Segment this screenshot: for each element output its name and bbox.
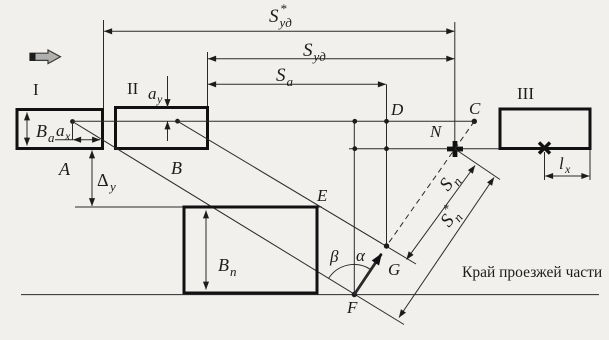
dimension S_n* <box>399 178 494 318</box>
svg-text:Δ: Δ <box>97 170 109 190</box>
direction block arrow icon <box>30 50 61 64</box>
svg-text:α: α <box>356 246 366 265</box>
svg-text:B: B <box>36 121 47 141</box>
extension line at C/N (right end of S_ud*, S_ud) <box>454 22 456 149</box>
svg-text:F: F <box>346 298 358 317</box>
point F <box>352 292 357 297</box>
point G <box>384 243 389 248</box>
svg-text:S: S <box>303 40 313 61</box>
road edge line <box>21 294 599 296</box>
svg-text:уд: уд <box>312 49 327 64</box>
extension line from vehicle II right edge (for S_ud, S_a) <box>207 52 209 108</box>
svg-text:S: S <box>276 65 286 86</box>
svg-text:D: D <box>390 100 404 119</box>
axis line from vehicle I point to C <box>73 120 475 122</box>
label a_y <box>148 84 163 106</box>
svg-text:β: β <box>329 247 339 266</box>
vehicle III <box>500 109 590 149</box>
obstacle rectangle B_n <box>184 207 317 293</box>
svg-text:I: I <box>33 80 39 99</box>
label l_x <box>559 154 571 176</box>
point N cross marker <box>447 141 463 157</box>
svg-text:y: y <box>156 92 163 106</box>
diagonal line L2 from vehicle II point through E and G <box>178 121 417 264</box>
svg-text:a: a <box>148 84 157 103</box>
extension line from vehicle I right edge (for S_ud*) <box>103 20 105 110</box>
label a_x <box>56 121 71 143</box>
point at x386 on y148 <box>384 146 389 151</box>
svg-text:III: III <box>517 84 534 103</box>
svg-text:B: B <box>171 158 182 178</box>
angle arc at F (beta and alpha) <box>328 264 370 278</box>
label B_n <box>218 255 237 279</box>
dimension S_ud <box>208 58 454 60</box>
point on vehicle I (driver point) <box>70 119 75 124</box>
label S_ud <box>303 40 326 64</box>
extension line from X down <box>544 152 546 180</box>
point at x355 on y148 <box>352 146 357 151</box>
svg-text:*: * <box>280 1 287 16</box>
label delta_y <box>97 170 116 194</box>
a_y dimension upper part <box>167 76 169 107</box>
short extension from point down to a_x dimension <box>72 122 74 141</box>
dimension S_n <box>407 166 476 260</box>
dimension l_x <box>545 175 589 177</box>
svg-text:x: x <box>564 162 571 176</box>
svg-text:y: y <box>108 179 116 194</box>
svg-text:S: S <box>269 6 279 27</box>
label S_a <box>276 65 294 89</box>
point at x386 on axis <box>384 119 389 124</box>
horizontal line at y207 (lower lane line) <box>75 206 322 208</box>
vehicle II <box>116 108 208 149</box>
svg-text:N: N <box>429 122 443 141</box>
dimension B_n (double arrow) <box>205 211 207 290</box>
horizontal line y148 from x350 to vehicle III <box>349 148 500 150</box>
label S_ud* <box>269 1 292 30</box>
point C <box>472 119 477 124</box>
svg-text:a: a <box>56 121 65 140</box>
label B_a <box>36 121 55 145</box>
thick arrow from F to G <box>354 254 381 295</box>
svg-text:A: A <box>58 159 71 179</box>
a_y dimension lower part <box>167 122 169 142</box>
label S_n <box>435 169 464 197</box>
svg-text:G: G <box>388 260 400 279</box>
svg-text:a: a <box>48 130 55 145</box>
svg-text:a: a <box>287 74 294 89</box>
dashed line from C through N to G <box>387 121 475 246</box>
dimension a_x <box>55 139 73 141</box>
svg-text:B: B <box>218 255 229 275</box>
X mark on vehicle III <box>539 143 550 154</box>
svg-text:x: x <box>64 129 71 143</box>
extension line from N for S_n dimensions <box>455 149 500 180</box>
svg-text:E: E <box>316 186 328 205</box>
label S_n* <box>432 201 466 233</box>
svg-text:II: II <box>127 79 139 98</box>
dimension S_a <box>208 83 386 85</box>
extension line from vehicle III right edge down <box>589 150 591 180</box>
point on vehicle II (driver point) <box>175 119 180 124</box>
vertical line through F <box>353 121 355 294</box>
extension line at D/G (right end of S_a) <box>386 84 388 246</box>
delta_y dimension <box>91 151 93 207</box>
point at x355 on axis <box>352 119 357 124</box>
svg-text:Край проезжей части: Край проезжей части <box>462 264 602 281</box>
dimension S_ud* <box>104 30 454 32</box>
vehicle I <box>17 110 103 149</box>
svg-text:C: C <box>469 99 481 118</box>
dimension B_a (double arrow inside vehicle I) <box>26 113 28 146</box>
svg-text:уд: уд <box>278 15 293 30</box>
svg-text:n: n <box>230 264 237 279</box>
diagonal line L1 from vehicle I point through F <box>73 122 405 325</box>
svg-text:l: l <box>559 154 564 173</box>
